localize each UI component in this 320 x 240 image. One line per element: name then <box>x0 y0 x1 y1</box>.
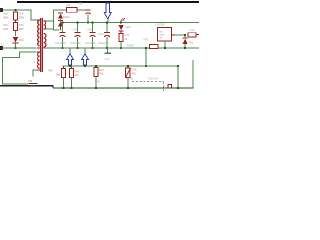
svg-text:6k8: 6k8 <box>99 72 104 76</box>
supply arrow up B (x=85) <box>82 49 89 65</box>
wire: vertical x=31 to primary top pin <box>31 10 32 21</box>
svg-text:C12C: C12C <box>87 28 94 32</box>
inductor L01 <box>67 8 78 13</box>
svg-text:R30: R30 <box>144 38 149 42</box>
node dot R13/bus2 <box>120 47 122 49</box>
capacitor C12A <box>60 22 66 48</box>
wire: output top rail y=10 <box>53 10 88 11</box>
svg-text:R6A: R6A <box>3 12 8 16</box>
svg-text:NTC: NTC <box>132 68 137 72</box>
svg-text:5k6: 5k6 <box>56 72 61 76</box>
svg-text:100uF/35: 100uF/35 <box>55 41 66 45</box>
wire: arrow stub to bus1 <box>107 19 108 22</box>
capacitor C12C <box>90 22 96 48</box>
wire: stub R6C bottom to D1 <box>15 31 16 36</box>
transformer pin stubs <box>37 19 40 22</box>
node dots on W3 <box>69 65 71 67</box>
wire: bus2 left segment y=48 <box>2 48 37 49</box>
diode D2B <box>58 20 63 26</box>
svg-text:1M5: 1M5 <box>3 27 9 31</box>
connector X1 pin 1 (left edge top) <box>0 8 3 12</box>
svg-text:R13: R13 <box>125 33 130 37</box>
wire: bus1 y=22.5 <box>60 22 199 23</box>
wire: to lower primary winding top pin y=52 <box>19 52 37 53</box>
svg-text:PW05: PW05 <box>127 43 135 47</box>
svg-text:390k: 390k <box>19 15 25 19</box>
wire: secondary top pin jog y=21 <box>46 21 54 22</box>
wire: jog x=19 <box>19 52 20 58</box>
wire: stub diode to bus1 <box>60 19 61 23</box>
svg-text:LED: LED <box>126 25 131 29</box>
svg-text:1M5: 1M5 <box>19 27 25 31</box>
wire: LED/R13 column stubs <box>121 32 122 34</box>
resistor R42 <box>62 66 66 87</box>
LED <box>119 25 124 32</box>
resistor R12 <box>188 33 199 37</box>
diode D2A <box>58 12 63 18</box>
dashed box TSM104 <box>132 82 164 91</box>
IC U1 regulator box <box>158 28 172 41</box>
wire: vertical bus2-W3 x=146 <box>146 48 147 67</box>
transformer TR1 primary winding (upper left) <box>38 20 40 46</box>
node dots C12B <box>76 22 78 24</box>
node dots C12A <box>61 22 63 24</box>
svg-text:R42: R42 <box>48 69 53 73</box>
svg-text:C12B: C12B <box>72 28 79 32</box>
svg-text:390k: 390k <box>3 15 9 19</box>
transformer TR1 core <box>40 18 43 72</box>
frame bottom-left black line <box>0 85 53 87</box>
node dots C12C <box>91 22 93 24</box>
svg-text:R6B: R6B <box>19 12 24 16</box>
svg-text:100uF/35: 100uF/35 <box>85 41 96 45</box>
wire: bus2 right segment y=48 <box>45 48 199 49</box>
svg-text:ES2F: ES2F <box>63 15 70 19</box>
resistor R43 <box>70 66 74 87</box>
svg-text:ZD1: ZD1 <box>189 41 194 45</box>
ground symbol GND on bus2 <box>104 49 111 55</box>
svg-text:D10: D10 <box>19 38 24 42</box>
svg-text:C12D: C12D <box>98 32 105 36</box>
node dot at R6A top <box>14 9 16 11</box>
resistor R30 inline on bus2 <box>150 44 159 48</box>
diode D1 <box>13 37 19 44</box>
wire: left vertical x=2.5 <box>2 57 3 84</box>
wire: stub between R6A and R6C <box>15 20 16 23</box>
frame top black line <box>17 1 199 3</box>
zener diode ZD1 <box>183 38 188 44</box>
node dot LED/bus1 <box>120 22 122 24</box>
svg-text:R12: R12 <box>190 28 195 32</box>
trimmer R7 (slashed resistor) <box>125 66 131 87</box>
svg-text:R24: R24 <box>99 68 104 72</box>
svg-text:C12A: C12A <box>57 28 64 32</box>
wire: C21 bottom to bus1 <box>88 14 89 22</box>
transformer TR1 secondary winding (upper right) <box>44 21 46 29</box>
wire: vertical x=193 <box>193 60 194 88</box>
wire: secondary pin y=29 <box>46 29 54 30</box>
wire: vertical W3 to bus3 x=178 <box>178 66 179 88</box>
svg-text:100uF/35: 100uF/35 <box>98 41 109 45</box>
resistor R13 <box>119 33 123 41</box>
wire: AC input top rail y=10 <box>1 10 31 11</box>
wire: U1 bottom pin to bus2 <box>165 41 166 48</box>
transformer TR1 secondary winding (lower right) <box>44 33 46 47</box>
wire: bottom-left horizontal y=84 <box>2 84 28 85</box>
primary ground symbol <box>29 83 38 86</box>
svg-text:L01: L01 <box>66 3 71 7</box>
svg-text:C24: C24 <box>105 57 110 61</box>
svg-text:R6C: R6C <box>3 23 8 27</box>
wire: zener stubs <box>185 35 186 38</box>
wire: diode bottom stub <box>60 27 61 31</box>
capacitor C12D <box>104 22 110 48</box>
supply arrow up A (x=70) <box>67 49 74 65</box>
node dot D1/bus2 <box>14 47 16 49</box>
svg-text:PRI: PRI <box>28 79 33 83</box>
wire: primary lower bottom pin to PRI ground <box>33 70 38 71</box>
wire: bus3 y=88 <box>53 87 194 88</box>
frame step at x=53 <box>53 85 54 88</box>
svg-text:7k5: 7k5 <box>129 77 134 81</box>
wire: vertical x=53 <box>53 10 54 31</box>
wire: feedback rail W3 y=66 <box>63 66 179 67</box>
svg-text:5k6: 5k6 <box>75 73 80 77</box>
svg-text:1 2: 1 2 <box>1 43 5 47</box>
supply arrow down (VCC) <box>104 3 111 19</box>
node dot zener/node <box>184 34 186 36</box>
svg-text:100uF/35: 100uF/35 <box>70 41 81 45</box>
wire: primary top pin y=20 <box>31 20 38 21</box>
wire: lower-left return y=57.5 <box>2 57 20 58</box>
svg-text:DS/25F: DS/25F <box>156 23 166 27</box>
svg-text:TSM 104: TSM 104 <box>148 76 159 80</box>
node dot zener/bus2 <box>184 47 186 49</box>
node dots on bus3 <box>63 87 65 89</box>
wire: U1 output to zener node y=35 <box>172 35 176 36</box>
wire: D1 bottom to bus2 <box>15 44 16 48</box>
transformer TR1 primary winding (lower left) <box>38 52 40 68</box>
svg-text:R6D: R6D <box>19 23 24 27</box>
svg-text:C21: C21 <box>78 1 83 5</box>
connector X1 pin 2 (left edge middle) <box>0 46 3 50</box>
svg-text:R43: R43 <box>75 69 80 73</box>
pin marker on bus3 <box>168 85 172 88</box>
resistor R6C <box>14 23 18 31</box>
svg-text:MC: MC <box>160 32 164 34</box>
resistor R24 <box>94 66 98 87</box>
wire: diode return y=30 <box>53 30 59 31</box>
capacitor C12B <box>75 22 81 48</box>
svg-text:C2N: C2N <box>95 80 100 84</box>
svg-text:7k5: 7k5 <box>132 71 137 75</box>
LED emission arrows <box>121 18 125 22</box>
node dot C21/bus1 <box>87 22 89 24</box>
resistor R6A <box>14 12 18 20</box>
node dots C12D <box>106 22 108 24</box>
capacitor C21 <box>86 9 91 14</box>
